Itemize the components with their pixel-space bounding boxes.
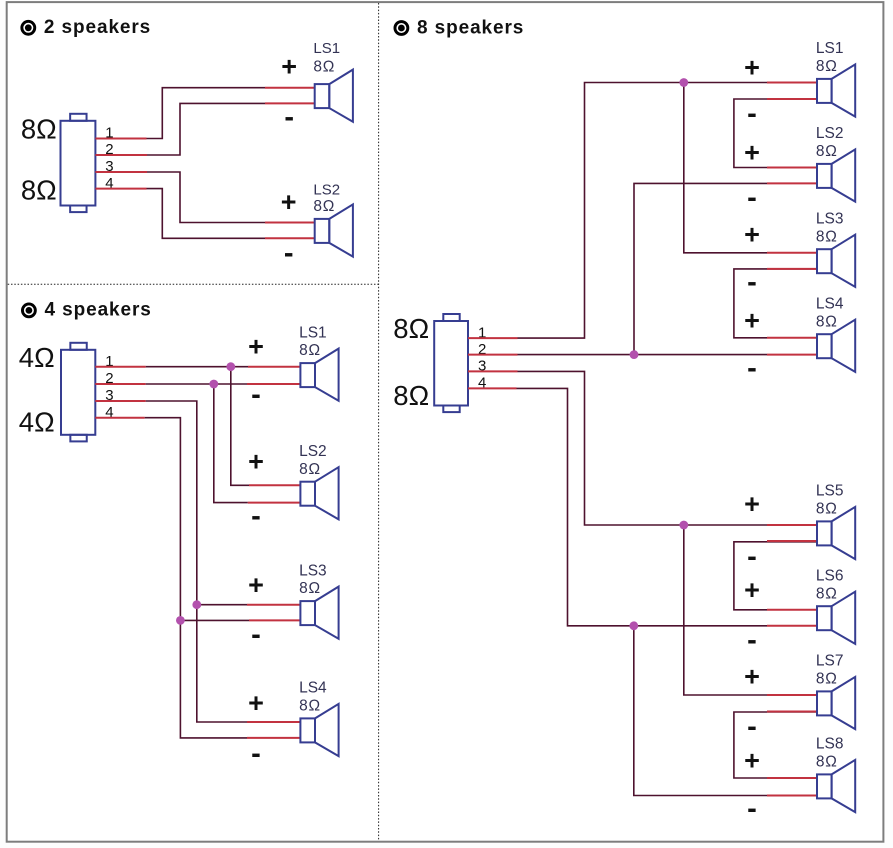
svg-text:8Ω: 8Ω <box>299 580 321 597</box>
wire J3 pin3 stub <box>468 370 518 372</box>
connector J2 (4-pin terminal block) <box>61 343 95 442</box>
svg-text:LS1: LS1 <box>313 40 340 57</box>
wire J1 pin1 stub <box>95 138 146 140</box>
wire pin1 up to LS1+ bus <box>518 83 768 339</box>
junction node pin3 bus / LS7 branch <box>679 521 688 530</box>
svg-text:8Ω: 8Ω <box>299 698 321 715</box>
wire J1 pin3 stub <box>95 171 147 173</box>
svg-text:-: - <box>747 182 757 214</box>
svg-text:-: - <box>747 711 757 743</box>
wire branch down to LS8- <box>634 626 767 796</box>
wire LS2+ lead <box>265 222 315 224</box>
svg-text:8Ω: 8Ω <box>21 174 57 205</box>
wire LS5- to LS6+ series link <box>734 542 817 610</box>
connector J3 (4-pin terminal block) <box>434 314 468 412</box>
svg-text:LS3: LS3 <box>299 562 327 579</box>
svg-text:2 speakers: 2 speakers <box>44 17 151 38</box>
svg-text:-: - <box>284 102 294 134</box>
svg-text:+: + <box>744 575 760 605</box>
svg-text:+: + <box>281 51 297 81</box>
wire pin4 down to LS6- <box>517 388 768 625</box>
wire J1 pin2 stub <box>95 154 147 156</box>
svg-text:LS8: LS8 <box>816 736 844 753</box>
speaker symbol LS3 (section 2) (driver box + horn) <box>300 587 338 639</box>
svg-text:-: - <box>251 619 261 651</box>
wire LS1+ lead <box>265 87 315 89</box>
wire branch pin2 down to LS2- <box>214 384 248 503</box>
svg-text:-: - <box>747 793 757 825</box>
connector J1 (4-pin terminal block) <box>61 114 96 212</box>
wire LS1- red lead <box>767 98 817 100</box>
wire LS3+ lead (sec2) <box>247 604 300 606</box>
svg-text:+: + <box>248 332 264 362</box>
wire J2 pin3 stub <box>95 400 145 402</box>
svg-text:+: + <box>744 662 760 692</box>
wire pin4 to LS2- <box>147 189 266 239</box>
wire LS7- to LS8+ series link <box>734 712 817 778</box>
svg-text:+: + <box>744 52 760 82</box>
svg-text:-: - <box>251 379 261 411</box>
svg-text:+: + <box>744 746 760 776</box>
dotted column separator <box>378 3 380 841</box>
svg-text:8Ω: 8Ω <box>816 58 838 75</box>
svg-text:8Ω: 8Ω <box>299 342 321 359</box>
svg-text:+: + <box>248 570 264 600</box>
svg-text:8Ω: 8Ω <box>816 501 838 518</box>
speaker symbol LS2 (section 3) (driver box + horn) <box>817 149 855 201</box>
wire LS4- lead (sec2) <box>247 737 300 739</box>
wire J3 pin4 stub <box>468 387 517 389</box>
svg-text:8Ω: 8Ω <box>313 59 335 76</box>
wire LS4- lead (sec3) <box>767 354 817 356</box>
section title icon: 8 speakers <box>395 22 408 35</box>
wire LS1+ lead (sec2) <box>248 366 300 368</box>
wire J1 pin4 stub <box>95 188 146 190</box>
section title icon: 4 speakers <box>22 304 35 317</box>
wire pin3 down to LS5+ bus <box>518 371 768 525</box>
wire pin3 down to LS4+ <box>146 401 247 722</box>
svg-text:8Ω: 8Ω <box>816 313 838 330</box>
wire LS1+ lead (sec3) <box>767 82 817 84</box>
svg-text:8Ω: 8Ω <box>816 585 838 602</box>
wire branch up to LS2- <box>634 183 767 354</box>
junction node pin4/LS3- (sec2) <box>176 616 185 625</box>
junction node pin3/LS3+ (sec2) <box>192 600 201 609</box>
wire LS3- lead (sec2) <box>249 619 300 621</box>
wire branch down to LS7+ <box>684 525 767 695</box>
speaker symbol LS8 (section 3) (driver box + horn) <box>817 760 855 812</box>
wire J2 pin2 stub <box>95 383 145 385</box>
svg-text:-: - <box>747 541 757 573</box>
wire LS5- red lead <box>767 540 817 542</box>
svg-text:8Ω: 8Ω <box>816 143 838 160</box>
wire J2 pin4 stub <box>95 417 144 419</box>
svg-text:8 speakers: 8 speakers <box>417 17 524 38</box>
svg-text:LS1: LS1 <box>816 40 844 57</box>
junction node pin1 bus / LS3 branch <box>679 78 688 87</box>
svg-text:+: + <box>744 306 760 336</box>
svg-text:8Ω: 8Ω <box>393 380 429 411</box>
svg-text:4Ω: 4Ω <box>19 407 55 438</box>
speaker symbol LS1 (section 3) (driver box + horn) <box>817 64 855 116</box>
wire pin4 down to LS4- <box>145 418 247 738</box>
speaker symbol LS3 (section 3) (driver box + horn) <box>817 235 855 287</box>
wire LS8+ lead (sec3) <box>767 777 817 779</box>
svg-text:LS6: LS6 <box>816 567 844 584</box>
wire LS2- lead (sec2) <box>248 502 301 504</box>
wire LS2- lead <box>265 237 315 239</box>
wire LS3- red lead <box>767 268 817 270</box>
svg-text:-: - <box>747 353 757 385</box>
wire LS5+ lead (sec3) <box>767 524 817 526</box>
wire J3 pin2 stub <box>468 354 518 356</box>
svg-text:LS4: LS4 <box>816 295 844 312</box>
svg-text:LS4: LS4 <box>299 680 327 697</box>
svg-text:LS2: LS2 <box>816 125 844 142</box>
speaker symbol LS2 (section 1) (driver box + horn) <box>315 204 353 256</box>
wire branch down to LS3+ <box>684 83 767 253</box>
wire LS2- lead (sec3) <box>767 182 817 184</box>
junction node pin1/LS2+ (sec2) <box>226 362 235 371</box>
svg-text:-: - <box>284 237 294 269</box>
svg-text:8Ω: 8Ω <box>313 198 335 215</box>
wire pin2 to LS1- <box>147 103 265 155</box>
svg-text:8Ω: 8Ω <box>816 754 838 771</box>
wire pin2 bus to LS4- <box>518 354 768 356</box>
wire LS6- lead (sec3) <box>767 625 817 627</box>
svg-text:8Ω: 8Ω <box>393 313 429 344</box>
junction node pin4 bus / LS8 branch <box>629 621 638 630</box>
svg-text:LS2: LS2 <box>299 443 327 460</box>
svg-text:+: + <box>744 489 760 519</box>
speaker symbol LS7 (section 3) (driver box + horn) <box>817 677 855 729</box>
wire LS2+ lead (sec2) <box>249 484 300 486</box>
speaker symbol LS1 (section 1) (driver box + horn) <box>315 70 353 122</box>
wire LS4+ lead (sec3) <box>767 337 817 339</box>
speaker symbol LS1 (section 2) (driver box + horn) <box>300 349 338 401</box>
svg-text:+: + <box>744 220 760 250</box>
svg-text:+: + <box>248 688 264 718</box>
svg-text:+: + <box>744 137 760 167</box>
wire LS2+ lead (sec3) <box>767 167 817 169</box>
wire LS3+ lead (sec3) <box>767 252 817 254</box>
wire pin1 to LS1+ <box>147 88 266 139</box>
wire LS4+ lead (sec2) <box>247 721 300 723</box>
wire J2 pin1 stub <box>95 366 145 368</box>
section title icon: 2 speakers <box>22 21 35 34</box>
wire LS3- to LS4+ series link <box>734 269 817 338</box>
svg-text:LS7: LS7 <box>816 653 844 670</box>
wire LS7+ lead (sec3) <box>767 694 817 696</box>
wire J3 pin1 stub <box>468 337 518 339</box>
dotted row separator (left column) <box>8 283 379 285</box>
svg-text:-: - <box>747 267 757 299</box>
speaker symbol LS4 (section 2) (driver box + horn) <box>300 704 338 756</box>
junction node pin2 bus / LS2 branch <box>630 350 639 359</box>
wire LS1- lead (sec2) <box>247 383 300 385</box>
speaker symbol LS5 (section 3) (driver box + horn) <box>817 507 855 559</box>
svg-text:4 speakers: 4 speakers <box>45 300 152 321</box>
svg-text:-: - <box>747 98 757 130</box>
svg-text:8Ω: 8Ω <box>299 461 321 478</box>
speaker symbol LS2 (section 2) (driver box + horn) <box>300 467 338 519</box>
svg-text:+: + <box>281 187 297 217</box>
wire LS8- lead (sec3) <box>767 795 817 797</box>
svg-text:LS1: LS1 <box>299 324 327 341</box>
svg-text:+: + <box>248 447 264 477</box>
svg-text:-: - <box>251 738 261 770</box>
junction node pin2/LS2- (sec2) <box>209 380 218 389</box>
wire pin1 bus to LS1+ <box>146 366 248 368</box>
wire LS1- to LS2+ series link <box>734 99 817 168</box>
wire branch pin1 down to LS2+ <box>231 367 249 486</box>
wire LS6+ lead (sec3) <box>767 609 817 611</box>
svg-text:-: - <box>251 500 261 532</box>
svg-text:LS3: LS3 <box>816 210 844 227</box>
speaker symbol LS6 (section 3) (driver box + horn) <box>817 592 855 644</box>
wire LS1- lead <box>265 102 315 104</box>
svg-text:8Ω: 8Ω <box>816 671 838 688</box>
svg-text:8Ω: 8Ω <box>21 114 57 145</box>
svg-text:-: - <box>747 624 757 656</box>
wire LS7- red lead <box>767 711 817 713</box>
speaker symbol LS4 (section 3) (driver box + horn) <box>817 320 855 372</box>
svg-text:LS5: LS5 <box>816 483 844 500</box>
wire branch to LS3+ <box>197 604 247 606</box>
svg-text:4Ω: 4Ω <box>19 342 55 373</box>
svg-text:LS2: LS2 <box>313 181 340 198</box>
svg-text:8Ω: 8Ω <box>816 228 838 245</box>
wire pin3 to LS2+ <box>147 172 265 223</box>
wire pin2 bus to LS1- <box>146 383 247 385</box>
wire branch to LS3- <box>180 619 249 621</box>
